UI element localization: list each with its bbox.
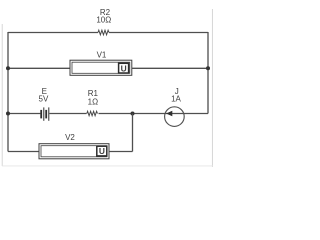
svg-text:5V: 5V xyxy=(39,95,49,104)
wire right vertical xyxy=(207,32,209,114)
frame border right xyxy=(211,9,213,167)
resistor R1 xyxy=(87,111,98,115)
voltmeter V2 xyxy=(39,144,109,159)
svg-text:V2: V2 xyxy=(65,133,75,142)
node left row3 xyxy=(6,112,10,116)
svg-text:10Ω: 10Ω xyxy=(96,16,111,25)
wire top R2-to-right xyxy=(109,32,208,34)
frame border left xyxy=(1,24,3,166)
wire top left-to-R2 xyxy=(8,32,98,34)
wire row3 left xyxy=(8,113,40,115)
frame border bottom xyxy=(2,165,213,167)
wire row2 left xyxy=(8,67,70,69)
svg-text:1A: 1A xyxy=(171,95,181,104)
wire row2 right xyxy=(132,67,208,69)
resistor R2 xyxy=(98,30,109,35)
wire R1-to-source xyxy=(99,113,209,115)
voltmeter V1 xyxy=(70,60,132,75)
node branch row3 xyxy=(131,112,135,116)
svg-text:1Ω: 1Ω xyxy=(88,98,98,107)
svg-text:U: U xyxy=(99,146,105,156)
wire bottom left xyxy=(8,151,39,153)
current source J 1A xyxy=(165,107,185,127)
node left row2 xyxy=(6,66,10,70)
svg-text:U: U xyxy=(121,63,127,73)
svg-text:V1: V1 xyxy=(97,50,107,59)
wire battery-to-R1 xyxy=(49,113,86,115)
wire bottom right xyxy=(109,151,133,153)
battery E 5V xyxy=(41,107,49,120)
node right row2 xyxy=(206,66,210,70)
wire branch vertical xyxy=(132,114,134,152)
wire left vertical xyxy=(7,32,9,152)
